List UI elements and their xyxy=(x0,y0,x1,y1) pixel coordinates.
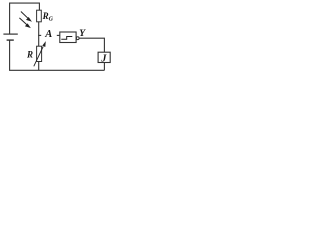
wire gate output to relay xyxy=(79,38,104,52)
wire gate input xyxy=(57,34,60,36)
battery long plate xyxy=(3,33,17,35)
wire top-left loop xyxy=(10,3,40,34)
light arrow 2 xyxy=(19,18,29,27)
hysteresis symbol xyxy=(61,37,72,40)
svg-text:A: A xyxy=(44,29,52,40)
potentiometer arrow xyxy=(34,43,45,67)
photoresistor RG body xyxy=(37,10,42,22)
node A stub wire xyxy=(38,34,41,36)
wire R bottom xyxy=(38,62,40,71)
svg-text:RG: RG xyxy=(42,11,54,23)
inverter bubble xyxy=(76,37,79,40)
svg-text:R: R xyxy=(26,50,33,60)
battery short plate xyxy=(7,39,14,41)
svg-text:Y: Y xyxy=(79,29,86,39)
wire relay bottom xyxy=(103,63,105,71)
wire left lower and bottom xyxy=(10,40,105,70)
Schmitt trigger gate box xyxy=(60,32,76,43)
potentiometer R body xyxy=(37,46,42,61)
wire RG bottom through node A to R top xyxy=(38,22,40,46)
relay J box xyxy=(98,52,110,62)
light arrow 1 xyxy=(21,12,31,21)
